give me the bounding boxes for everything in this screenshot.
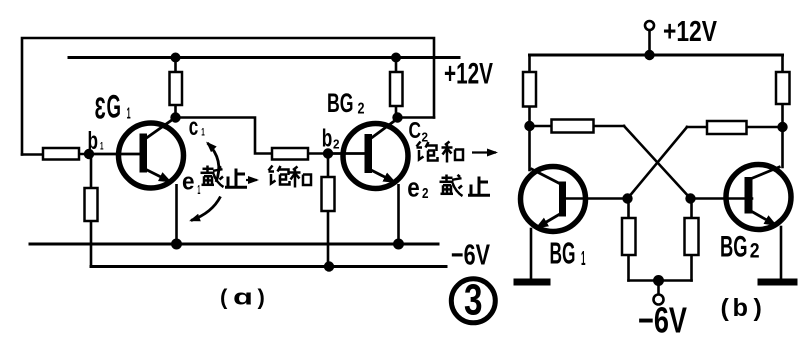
resistor Rb2 (horizontal, base of BG2) [272,148,308,160]
svg-text:2: 2 [333,137,340,152]
text jie-zhi (截止) after e1 [201,166,224,188]
wire: R6 leads [690,199,693,281]
node: left base junction [622,193,632,203]
terminal +12V (open circle) [645,21,654,30]
svg-text:BG: BG [720,231,748,264]
curved arrow upper (c1 swap) [208,143,219,182]
svg-text:3: 3 [464,276,483,325]
node: -6V bus junction [653,275,664,286]
svg-text:c: c [189,113,199,141]
circled 3 figure number [451,279,495,323]
svg-text:e: e [182,169,195,196]
svg-text:+12V: +12V [663,16,718,48]
wire: R4 leads [687,126,783,129]
resistor R5 (left lower, fig b) [622,218,636,255]
wire: right emitter to ground [780,227,783,278]
node: right collector junction [777,122,787,132]
label EG1 (BG1, fig a) [95,89,131,126]
wire: Rb2 lead to b2 [308,152,328,155]
svg-text:2: 2 [750,240,760,263]
node: +12V rail junction [644,50,654,60]
wire: Rc1 leads [174,58,177,118]
node: +12V rail / Rc2 [391,53,401,63]
svg-text:BG: BG [327,88,354,118]
arrow e1 row [246,179,257,181]
wire: b2 node to Rb2' to -6V rail [327,154,330,267]
svg-text:3: 3 [95,91,106,126]
wire: Rc2 leads [395,58,398,118]
svg-text:+12V: +12V [444,58,493,91]
wire: diagonal right-collector to left-base [628,127,688,199]
wire: +12V rail [69,56,459,59]
node b1 [84,149,94,159]
resistor Rb2' (vertical, below b2) [322,177,335,211]
resistor Rc2 [390,72,403,106]
svg-text:2: 2 [358,101,365,118]
resistor R1 (left collector, fig b) [523,72,536,107]
resistor R3 (left base, horizontal, fig b) [552,120,594,133]
svg-text:−6V: −6V [451,240,490,272]
wire: Rb1 leads [22,153,89,156]
resistor R4 (right base, horizontal, fig b) [707,121,747,134]
text jie-zhi (截止) after e2 [440,175,463,197]
wire: c1 to b2 resistor [176,118,273,154]
resistor Rb1' (vertical, below b1) [85,188,98,221]
svg-text:−6V: −6V [638,300,687,341]
wire: right collector branch [781,55,784,167]
wire: top rail [530,54,783,57]
svg-text:b: b [733,294,749,322]
resistor Rb1 (horizontal, base of BG1) [43,148,79,160]
text bao-he (饱和) after C2 [417,142,438,161]
transistor BG2 (fig b) [726,165,791,230]
transistor BG1 (fig b) [521,167,586,232]
svg-text:BG: BG [550,236,576,271]
node: right base junction [685,193,695,203]
transistor BG1 (fig a) [89,119,184,245]
svg-text:G: G [107,89,122,125]
node on -6V rail [324,261,334,271]
node e1 on emitter rail [171,239,182,250]
wire: R5 leads [627,199,630,281]
svg-text:(: ( [721,294,730,322]
transistor BG2 (fig a) [328,119,408,244]
svg-text:b: b [88,127,99,155]
node c1 [170,112,180,122]
wire: emitter rail [30,243,438,246]
text bao-he (饱和) after arrow [269,166,290,185]
resistor R6 (right lower, fig b) [685,218,699,255]
wire: c2 to right vertical [398,116,435,119]
node C2 [392,112,402,122]
wire: left base [566,197,628,200]
wire: left collector branch [528,55,531,170]
node: +12V rail / Rc1 [171,53,181,63]
node: left collector junction [524,121,534,131]
svg-text:2: 2 [422,185,429,202]
svg-text:e: e [407,173,420,203]
wire: -6V terminal stem [657,281,660,295]
terminal -6V (open circle) [654,295,664,305]
svg-text:1: 1 [201,127,205,139]
svg-text:): ) [258,285,265,310]
svg-text:1: 1 [100,141,104,153]
node b2 [323,148,333,158]
node e2 on emitter rail [393,239,404,250]
wire: bottom -6V bus [629,279,692,282]
wire: right base [691,197,753,200]
wire: +12V terminal stem [648,30,651,55]
svg-text:(: ( [220,285,228,310]
svg-text:ɑ: ɑ [233,285,253,310]
svg-text:1: 1 [127,106,131,123]
resistor R2 (right collector, fig b) [776,72,790,104]
ground (left, fig b) [514,279,551,286]
svg-text:C: C [409,117,422,143]
wire: R3 leads [530,125,625,128]
curved arrow lower (e1 swap) [191,197,221,221]
wire: b1 node to Rb1' to -6V rail [90,154,93,267]
svg-text:1: 1 [581,248,586,270]
arrow C2 row [472,151,496,153]
wire: cross-coupling C2 to b1, top line [22,38,434,155]
svg-text:): ) [754,294,762,322]
wire: -6V rail [91,265,446,268]
wire: diagonal left-collector to right-base [624,126,691,199]
svg-text:b: b [322,125,333,153]
ground (right, fig b) [758,279,798,286]
wire: left emitter to ground [530,229,533,278]
svg-text:1: 1 [197,182,200,197]
resistor Rc1 [170,72,183,105]
